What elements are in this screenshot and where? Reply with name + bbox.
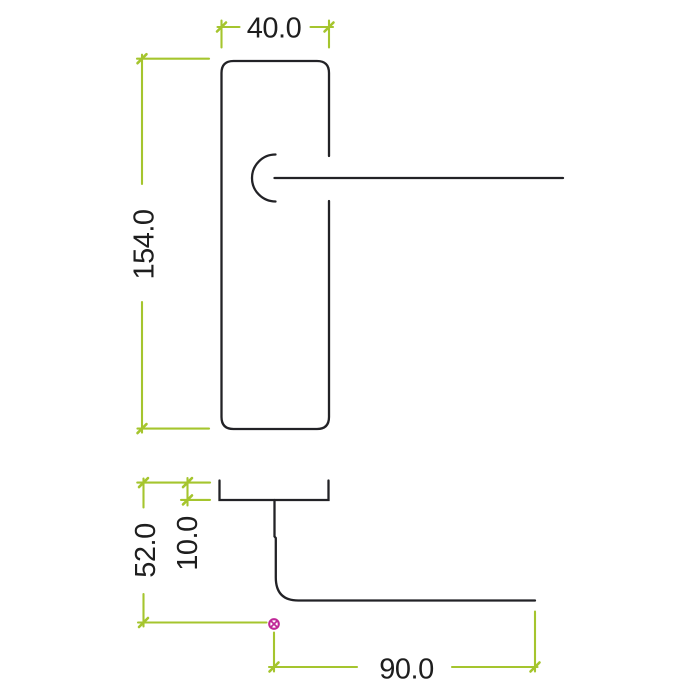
dim 154.0 extension line bottom: [138, 428, 210, 430]
backplate section (side view, U channel): [220, 481, 329, 501]
dim 52.0 line lower stub: [142, 594, 144, 627]
dim 40.0 tick left: [217, 23, 226, 32]
dim 40.0 tick right: [325, 23, 334, 32]
dim 52.0 line upper stub: [142, 479, 144, 508]
dim 90.0 tick left: [270, 663, 279, 672]
dim 40.0 extension line left: [220, 21, 222, 48]
dim 154.0 line upper stub: [141, 55, 143, 184]
dim 52.0 extension line top: [137, 482, 210, 484]
dim 90.0 line left stub: [269, 666, 357, 668]
svg-text:10.0: 10.0: [172, 516, 204, 570]
dim 90.0 line right stub: [452, 666, 538, 668]
dim 40.0 line left stub: [218, 26, 240, 28]
svg-text:154.0: 154.0: [129, 209, 161, 279]
dim 10.0 tick bottom: [183, 495, 192, 504]
dim 90.0 extension line left: [273, 633, 275, 672]
dim 154.0 tick bottom: [138, 424, 147, 433]
dim 154.0 tick top: [138, 54, 147, 63]
lever line (front view): [275, 177, 564, 179]
dim 52.0 tick top: [139, 478, 148, 487]
dim 52.0 extension line bottom: [138, 621, 267, 623]
dim 154.0 line lower stub: [141, 302, 143, 433]
dim 90.0 extension line right: [534, 612, 536, 672]
fixing point marker circle: [269, 619, 279, 629]
lever rose arc (C shape): [252, 155, 276, 202]
dim 154.0 extension line top: [137, 58, 209, 60]
dim 40.0 extension line right: [328, 21, 330, 48]
dim 10.0 line: [186, 478, 188, 506]
svg-text:40.0: 40.0: [247, 13, 301, 45]
dim 10.0 tick top: [183, 478, 192, 487]
dim 10.0 extension line: [181, 499, 210, 501]
dim 40.0 line right stub: [311, 26, 334, 28]
backplate outline (front view, with gap in right edge for lever): [222, 61, 330, 429]
fixing point marker cross: [271, 621, 278, 628]
dim 52.0 tick bottom: [139, 618, 148, 627]
dim 90.0 tick right: [531, 663, 540, 672]
svg-text:52.0: 52.0: [130, 523, 162, 577]
lever profile (side view stem with curve): [275, 500, 536, 601]
svg-text:90.0: 90.0: [379, 654, 433, 686]
